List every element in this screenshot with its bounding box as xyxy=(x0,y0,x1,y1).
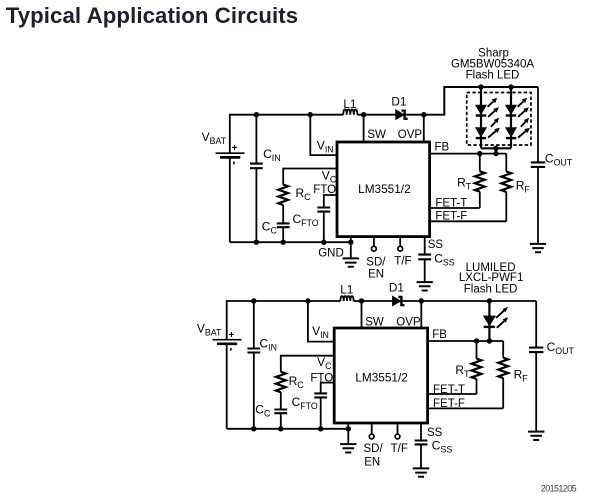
node: junction strings bottom (top circuit) xyxy=(493,146,498,151)
node: junction CC bottom (top circuit) xyxy=(281,240,286,245)
svg-text:SW: SW xyxy=(367,129,386,141)
wire: SW pin drop (bottom circuit) xyxy=(361,301,363,328)
resistor RF (bottom circuit) xyxy=(502,341,504,358)
capacitor CFTO (top circuit) xyxy=(317,208,330,212)
svg-text:T/F: T/F xyxy=(391,443,408,455)
diode D1 schottky (top circuit) xyxy=(396,110,405,120)
node: junction VIN top rail (top circuit) xyxy=(308,112,313,117)
wire: VC branch to RC (top circuit) xyxy=(283,169,337,185)
ground symbol below COUT (top circuit) xyxy=(530,244,546,252)
wire: GND pin drop (top circuit) xyxy=(350,237,352,259)
pin SD/EN open circle (top circuit) xyxy=(373,237,375,247)
wire: OVP rail up and over LED array (top circuit) xyxy=(444,87,538,116)
svg-text:LXCL-PWF1: LXCL-PWF1 xyxy=(459,272,524,284)
wire: FB line (bottom circuit) xyxy=(428,340,504,342)
svg-text:LM3551/2: LM3551/2 xyxy=(358,182,410,196)
svg-text:SS: SS xyxy=(428,239,444,251)
svg-text:D1: D1 xyxy=(389,281,404,295)
wire: RC to CC (bottom circuit) xyxy=(280,392,282,409)
wire: bottom ground rail (top circuit) xyxy=(230,241,351,243)
wire: RC to CC (top circuit) xyxy=(282,205,284,223)
node: junction L1/SW (bottom circuit) xyxy=(359,298,364,303)
emission arrows LED D4 (top circuit) xyxy=(518,101,524,106)
wire: below battery to bottom rail (bottom circuit) xyxy=(226,344,228,429)
svg-text:SS: SS xyxy=(427,427,443,439)
inductor L1 (top circuit) xyxy=(343,109,357,114)
wire: D1 cathode to OVP corner (top circuit) xyxy=(405,114,445,116)
node: junction CFTO bottom (top circuit) xyxy=(321,240,326,245)
wire: FET-T line (bottom circuit) xyxy=(428,393,477,395)
node: junction LED return on FB line (top circuit) xyxy=(493,151,498,156)
resistor RC (top circuit) xyxy=(278,185,288,205)
capacitor CSS (top circuit) xyxy=(418,255,431,260)
ground symbol below CSS (top circuit) xyxy=(417,282,433,290)
svg-text:SD/: SD/ xyxy=(366,257,386,269)
LED D3 string A lower (top circuit) xyxy=(476,128,487,137)
capacitor CIN (top circuit) xyxy=(255,115,257,164)
wire: LED drop to FB line (bottom circuit) xyxy=(488,301,490,341)
LED D6 LUMILED (bottom circuit) xyxy=(483,316,495,326)
node: junction string A top (top circuit) xyxy=(478,84,483,89)
emission arrows LED D2 (top circuit) xyxy=(488,101,494,106)
svg-text:T/F: T/F xyxy=(394,256,411,268)
inductor L1 (bottom circuit) xyxy=(340,296,353,301)
capacitor CFTO (bottom circuit) xyxy=(314,393,327,397)
wire: CC to bottom rail (bottom circuit) xyxy=(280,413,282,429)
svg-text:L1: L1 xyxy=(340,282,353,296)
node: junction CC bottom (bottom circuit) xyxy=(278,426,283,431)
svg-text:Typical Application Circuits: Typical Application Circuits xyxy=(6,3,299,28)
capacitor CSS (bottom circuit) xyxy=(415,441,428,445)
svg-text:+: + xyxy=(232,143,238,154)
wire: CC to bottom rail (top circuit) xyxy=(282,227,284,242)
svg-text:FET-T: FET-T xyxy=(433,384,465,396)
wire: CFTO to bottom rail (top circuit) xyxy=(323,212,325,243)
wire: FTO branch to CFTO (bottom circuit) xyxy=(321,383,335,394)
wire: top rail left segment with VBAT column corner (top circuit) xyxy=(230,115,343,153)
wire: bottom ground rail (bottom circuit) xyxy=(227,428,349,430)
wire: FET-T line (top circuit) xyxy=(430,207,480,209)
emission arrows LED D5 (top circuit) xyxy=(521,122,526,127)
node: junction GND (bottom circuit) xyxy=(346,426,351,431)
svg-text:FB: FB xyxy=(435,142,450,154)
capacitor CC (bottom circuit) xyxy=(274,410,287,414)
op chip U2 LM3551/2 (bottom circuit) xyxy=(334,328,427,423)
battery VBAT (bottom circuit) xyxy=(212,339,241,341)
wire: GND pin drop (bottom circuit) xyxy=(347,423,349,444)
LED D5 string B lower (top circuit) xyxy=(506,128,517,137)
wire: FB line (top circuit) xyxy=(430,153,507,155)
svg-text:Flash LED: Flash LED xyxy=(464,284,518,296)
wire: below battery to bottom rail (top circuit) xyxy=(229,158,231,243)
node: junction CIN top rail (top circuit) xyxy=(254,112,259,117)
svg-text:L1: L1 xyxy=(343,97,356,111)
wire: SS pin to CSS (top circuit) xyxy=(424,237,426,255)
resistor RT (bottom circuit) xyxy=(476,341,478,359)
node: junction D1/OVP (bottom circuit) xyxy=(419,298,424,303)
resistor RT (top circuit) xyxy=(479,154,481,172)
capacitor CIN (bottom circuit) xyxy=(253,301,255,348)
svg-text:D1: D1 xyxy=(391,94,406,108)
svg-text:FET-T: FET-T xyxy=(435,197,467,209)
emission arrows LED D3 (top circuit) xyxy=(491,122,496,127)
wire: CFTO to bottom rail (bottom circuit) xyxy=(320,398,322,429)
wire: rail L1 to D1 (top circuit) xyxy=(357,114,395,116)
pin T/F open circle (top circuit) xyxy=(399,237,401,247)
wire: VIN branch (bottom circuit) xyxy=(308,301,335,342)
ground symbol GND (top circuit) xyxy=(343,258,359,266)
label - tick (battery negative, top circuit) xyxy=(233,162,236,165)
wire: FET-F line (top circuit) xyxy=(430,220,507,222)
node: junction string B top (top circuit) xyxy=(508,84,513,89)
capacitor COUT (top circuit) xyxy=(537,87,539,162)
wire: LED return drop to FB (top circuit) xyxy=(495,148,497,153)
wire: FTO branch to CFTO (top circuit) xyxy=(324,195,338,207)
node: junction LED top rail (bottom circuit) xyxy=(487,298,492,303)
node: junction RT top (bottom circuit) xyxy=(474,338,479,343)
svg-text:SD/: SD/ xyxy=(364,443,384,455)
resistor RC (bottom circuit) xyxy=(276,372,286,392)
wire: VC branch to RC (bottom circuit) xyxy=(281,356,335,372)
wire: rail L1 to D1 (bottom circuit) xyxy=(354,300,393,302)
wire: LED strings bottom connect (top circuit) xyxy=(481,147,511,149)
LED array dashed box (top circuit) xyxy=(467,93,531,146)
svg-text:OVP: OVP xyxy=(398,129,423,141)
node: junction VIN top rail (bottom circuit) xyxy=(305,298,310,303)
wire: D1 cathode rail to COUT (bottom circuit) xyxy=(402,300,537,302)
emission arrows LED D6 (bottom circuit) xyxy=(496,311,504,318)
node: junction L1/SW (top circuit) xyxy=(361,112,366,117)
svg-text:FB: FB xyxy=(432,329,447,341)
node: junction RT top (top circuit) xyxy=(477,151,482,156)
pin SD/EN open circle (bottom circuit) xyxy=(371,423,373,434)
wire: top rail left segment with VBAT column corner (bottom circuit) xyxy=(227,301,341,340)
svg-text:SW: SW xyxy=(365,317,384,329)
svg-text:GND: GND xyxy=(318,248,344,260)
svg-text:20151205: 20151205 xyxy=(541,483,577,493)
node: junction CIN bottom (top circuit) xyxy=(254,240,259,245)
node: junction CIN top rail (bottom circuit) xyxy=(251,298,256,303)
wire: SW pin drop (top circuit) xyxy=(363,115,365,142)
wire: FET-F line (bottom circuit) xyxy=(428,407,504,409)
node: junction CIN bottom (bottom circuit) xyxy=(251,426,256,431)
wire: OVP pin drop (bottom circuit) xyxy=(420,301,422,328)
svg-text:LM3551/2: LM3551/2 xyxy=(355,370,407,384)
capacitor COUT (bottom circuit) xyxy=(535,301,537,347)
label - tick (battery negative, bottom circuit) xyxy=(230,348,233,351)
ground symbol below CSS (bottom circuit) xyxy=(413,468,429,476)
svg-text:EN: EN xyxy=(368,268,384,280)
svg-text:FET-F: FET-F xyxy=(433,398,465,410)
diode D1 schottky (bottom circuit) xyxy=(392,296,401,306)
svg-text:FET-F: FET-F xyxy=(435,211,467,223)
op chip U1 LM3551/2 (top circuit) xyxy=(337,142,430,237)
wire: VIN branch (top circuit) xyxy=(310,115,337,155)
wire: LED string B (top circuit) xyxy=(510,87,512,148)
wire: SS pin to CSS (bottom circuit) xyxy=(420,423,422,440)
capacitor CC (top circuit) xyxy=(277,223,290,227)
node: junction GND (top circuit) xyxy=(348,240,353,245)
resistor RF (top circuit) xyxy=(505,154,507,172)
node: junction LED return on FB line (bottom circuit) xyxy=(487,338,492,343)
wire: OVP pin drop (top circuit) xyxy=(423,115,425,142)
wire: CSS to ground (top circuit) xyxy=(424,259,426,282)
pin T/F open circle (bottom circuit) xyxy=(397,423,399,434)
wire: LED string A (top circuit) xyxy=(480,87,482,148)
node: junction D1/OVP (top circuit) xyxy=(421,112,426,117)
LED D2 string A upper (top circuit) xyxy=(476,105,487,114)
svg-text:OVP: OVP xyxy=(396,317,421,329)
wire: CSS to ground (bottom circuit) xyxy=(420,445,422,469)
node: junction CFTO bottom (bottom circuit) xyxy=(318,426,323,431)
svg-text:+: + xyxy=(229,330,235,341)
svg-text:Flash LED: Flash LED xyxy=(466,69,520,81)
ground symbol GND (bottom circuit) xyxy=(340,444,356,452)
svg-text:EN: EN xyxy=(364,457,380,469)
ground symbol below COUT (bottom circuit) xyxy=(528,432,544,440)
battery VBAT (top circuit) xyxy=(216,152,245,154)
LED D4 string B upper (top circuit) xyxy=(506,105,517,114)
